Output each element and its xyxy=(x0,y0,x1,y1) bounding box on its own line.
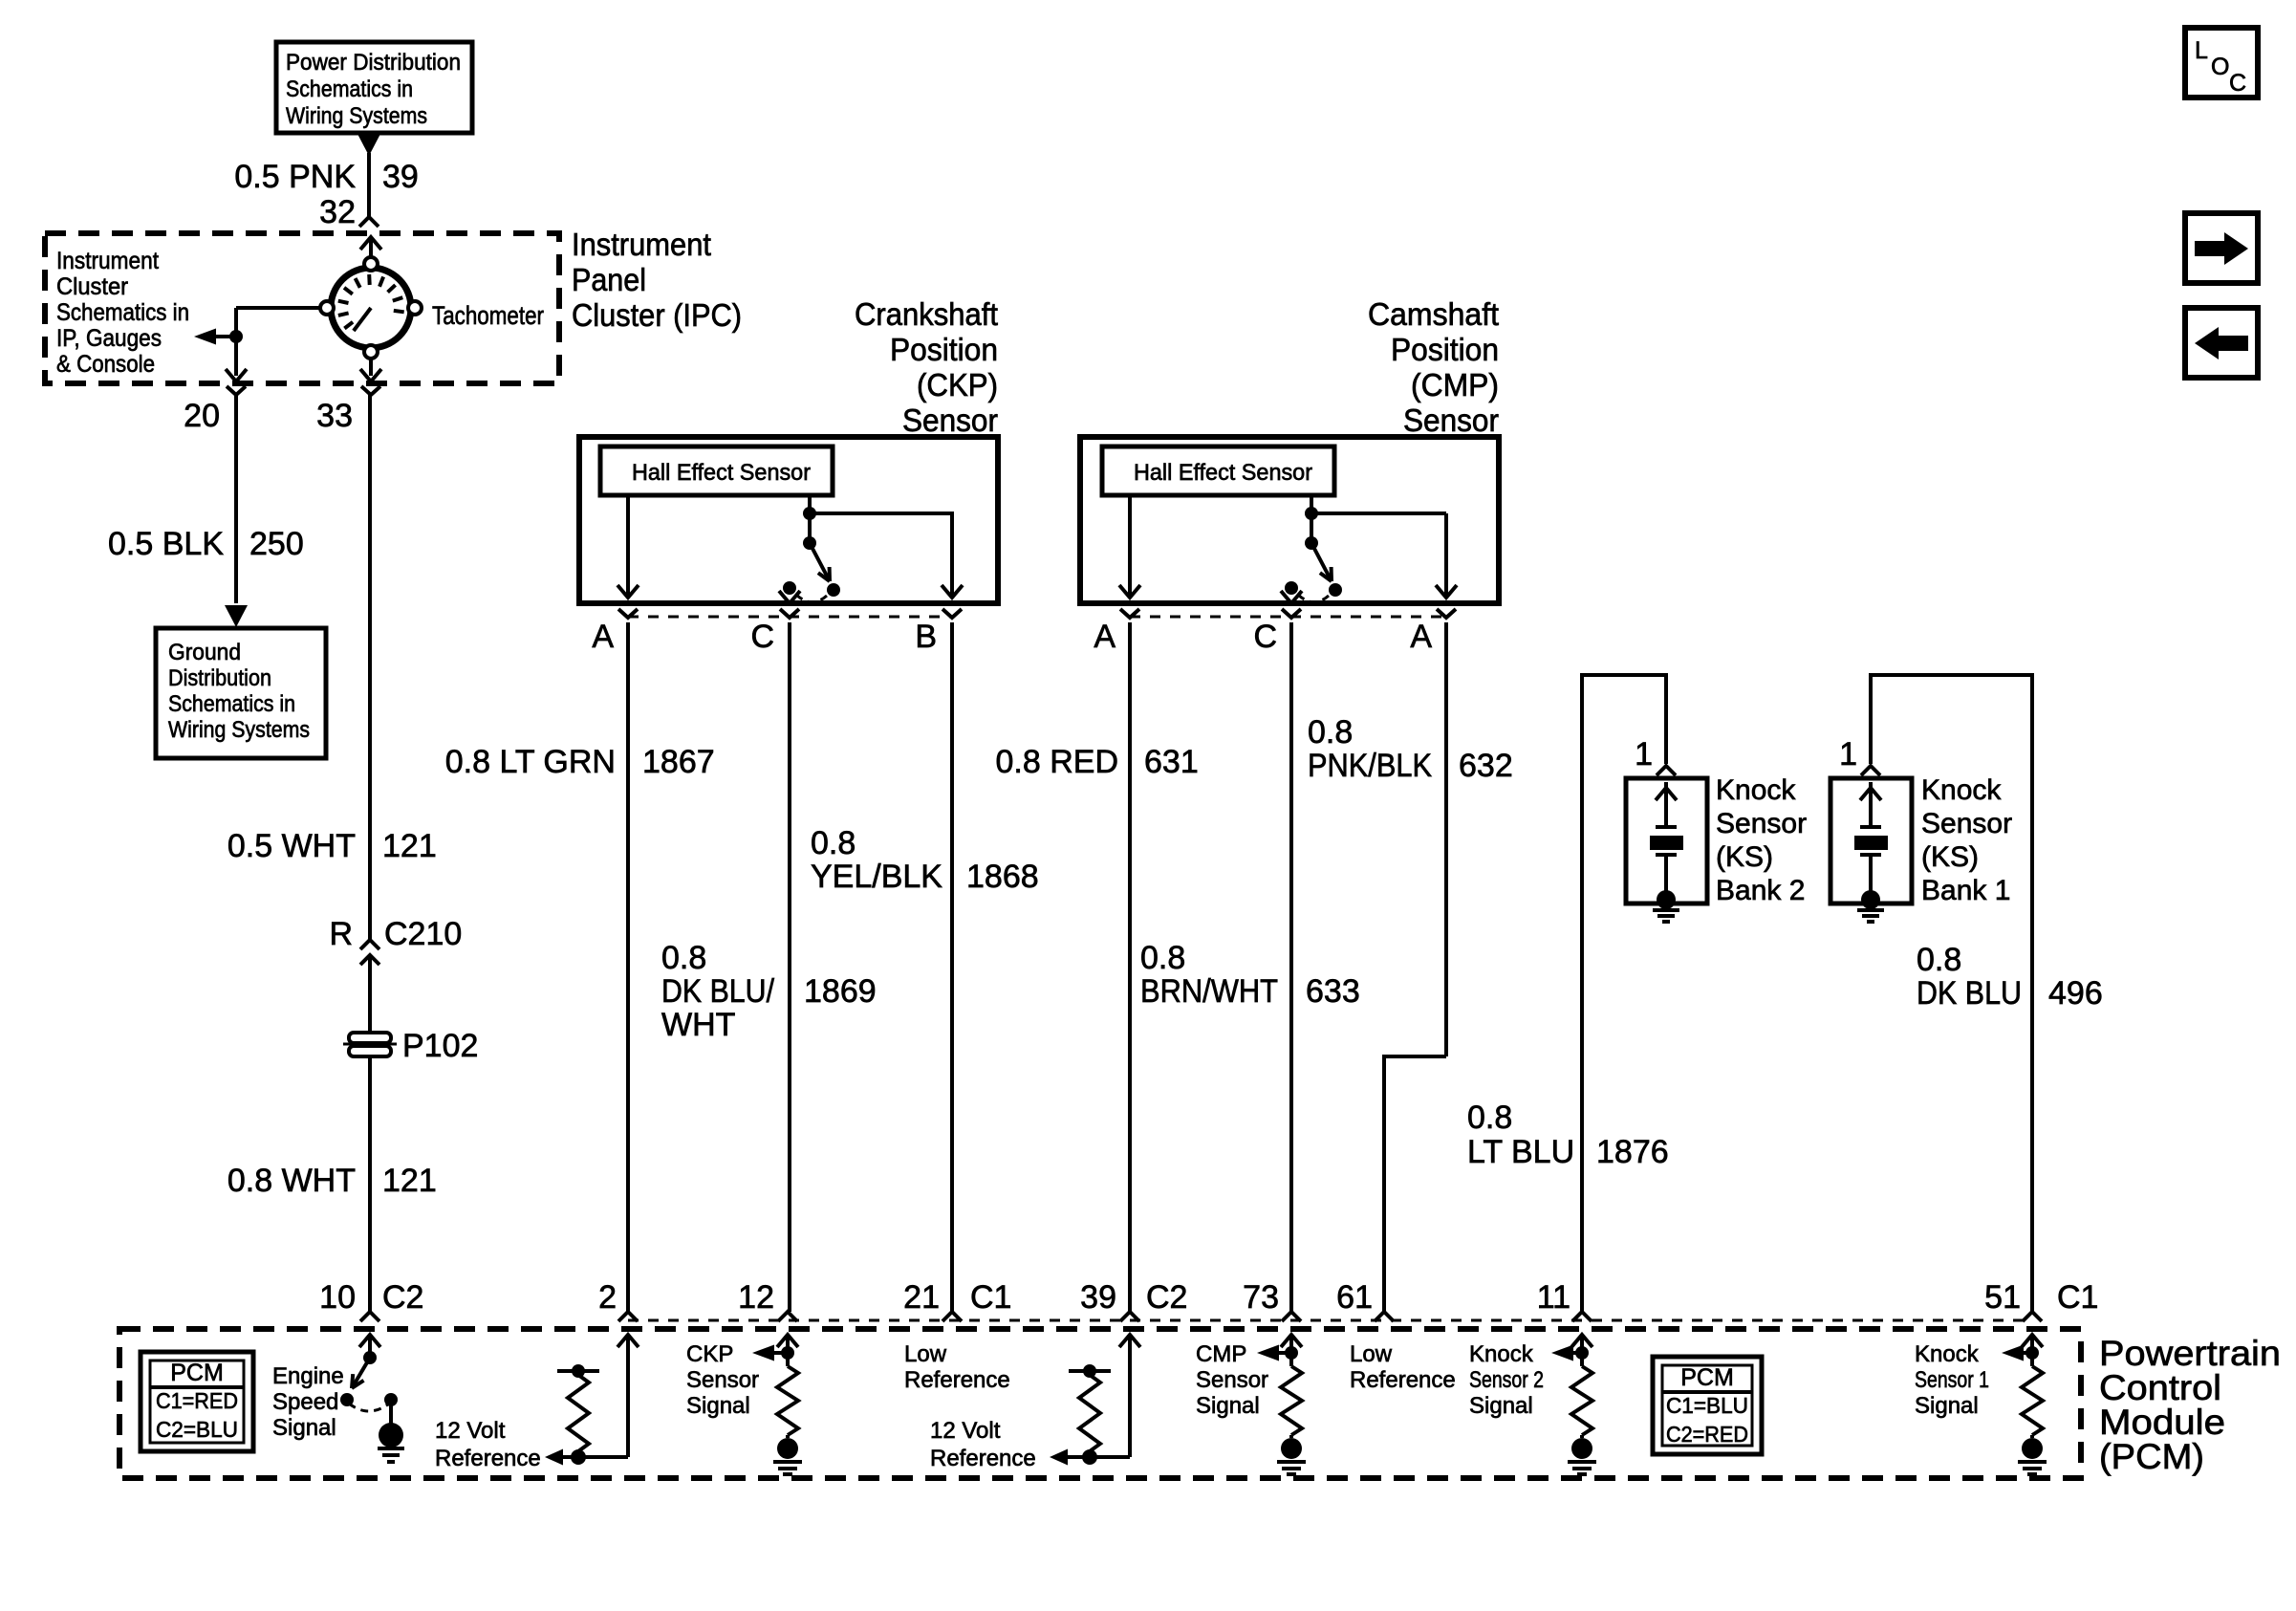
svg-text:Sensor: Sensor xyxy=(1921,808,2012,839)
svg-text:Bank 1: Bank 1 xyxy=(1921,875,2010,906)
CKP terminal B xyxy=(942,609,962,618)
PCM connector id box C1=BLU C2=RED xyxy=(1653,1357,1762,1454)
svg-text:121: 121 xyxy=(382,828,437,864)
svg-text:C: C xyxy=(2229,70,2246,97)
CMP internal junction xyxy=(1305,507,1318,520)
label 12 Volt Reference right xyxy=(930,1418,1036,1471)
svg-text:CKP: CKP xyxy=(686,1341,733,1367)
svg-text:(KS): (KS) xyxy=(1716,841,1773,873)
svg-text:(KS): (KS) xyxy=(1921,841,1979,873)
arrow into IPC bottom boundary wire 20 xyxy=(226,369,247,381)
svg-text:PCM: PCM xyxy=(1680,1364,1734,1391)
svg-text:Instrument: Instrument xyxy=(56,248,159,274)
arrow to IP Gauges schematics xyxy=(214,335,236,338)
svg-text:YEL/BLK: YEL/BLK xyxy=(811,859,942,895)
pin 11 of PCM xyxy=(1572,1312,1592,1321)
svg-text:Schematics in: Schematics in xyxy=(56,299,189,326)
12 volt reference circuit right xyxy=(1050,1335,1140,1466)
arrow into IPC bottom boundary wire 33 xyxy=(360,369,381,381)
label Knock Sensor 2 Signal xyxy=(1469,1341,1544,1419)
splice P102 xyxy=(343,1033,397,1056)
CKP hall effect sensor box xyxy=(600,446,833,495)
svg-text:1867: 1867 xyxy=(642,744,715,780)
PCM connector id box C1=RED C2=BLU xyxy=(141,1352,253,1451)
CKP terminal A xyxy=(618,609,638,618)
CKP internal wire to terminal A xyxy=(626,495,630,597)
svg-text:BRN/WHT: BRN/WHT xyxy=(1140,973,1278,1010)
label Knock Sensor (KS) Bank 2 xyxy=(1716,774,1807,906)
svg-text:O: O xyxy=(2211,54,2229,80)
svg-text:Position: Position xyxy=(1391,332,1499,367)
svg-text:Sensor: Sensor xyxy=(1716,808,1807,839)
CKP sensor title xyxy=(855,296,998,438)
CMP terminal A left xyxy=(1120,609,1139,618)
knock sensor KS bank 2 box xyxy=(1626,778,1707,922)
CMP internal wire from hall sensor to switch xyxy=(1310,495,1313,543)
knock sensor bank 2 terminal 1 xyxy=(1657,766,1676,775)
pin 39 C2 of PCM xyxy=(1120,1312,1139,1321)
svg-text:Sensor 2: Sensor 2 xyxy=(1469,1367,1544,1393)
connector C210 terminal R xyxy=(360,940,379,949)
ground symbol CKP signal xyxy=(777,1438,798,1459)
svg-text:Sensor: Sensor xyxy=(686,1367,759,1393)
Instrument Panel Cluster dashed outline xyxy=(45,233,559,383)
svg-text:0.5 BLK: 0.5 BLK xyxy=(108,526,224,562)
CMP sensor box xyxy=(1080,437,1499,603)
svg-text:0.5 PNK: 0.5 PNK xyxy=(234,159,356,195)
CMP switch contact to terminal C xyxy=(1285,581,1298,595)
svg-text:C: C xyxy=(750,619,774,655)
pin 21 C1 of PCM xyxy=(942,1312,962,1321)
svg-text:Knock: Knock xyxy=(1716,774,1796,806)
svg-text:Cluster: Cluster xyxy=(56,273,128,300)
svg-text:0.8 RED: 0.8 RED xyxy=(996,744,1119,780)
forward arrow navigation box xyxy=(2185,213,2258,283)
ground symbol knock sensor 2 signal xyxy=(1571,1438,1592,1459)
svg-text:1876: 1876 xyxy=(1596,1134,1669,1170)
svg-text:Low: Low xyxy=(1350,1341,1393,1367)
svg-text:Hall Effect Sensor: Hall Effect Sensor xyxy=(632,460,811,486)
svg-text:0.8 LT GRN: 0.8 LT GRN xyxy=(445,744,616,780)
Ground Distribution reference box xyxy=(156,628,326,758)
junction on left branch xyxy=(229,330,243,343)
svg-text:Knock: Knock xyxy=(1469,1341,1534,1367)
label CMP Sensor Signal xyxy=(1196,1341,1268,1419)
svg-text:39: 39 xyxy=(382,159,419,195)
svg-text:(CMP): (CMP) xyxy=(1411,367,1499,403)
svg-text:(CKP): (CKP) xyxy=(917,367,998,403)
back arrow navigation box xyxy=(2185,308,2258,378)
knock sensor bank 1 wire loop to PCM pin 51 xyxy=(1869,673,2034,1312)
svg-text:Instrument: Instrument xyxy=(572,227,711,262)
label 0.8 DK BLU 496 xyxy=(1917,942,2103,1012)
CMP terminal C xyxy=(1282,609,1301,618)
svg-text:C: C xyxy=(1253,619,1277,655)
ground symbol CMP signal xyxy=(1281,1438,1302,1459)
wire 1867 0.8 LT GRN CKP A to PCM pin 2 xyxy=(626,622,630,1312)
PCM title Powertrain Control Module (PCM) xyxy=(2099,1334,2281,1476)
CKP connector dashed line xyxy=(628,616,952,619)
CMP terminal A right xyxy=(1437,609,1456,618)
svg-text:P102: P102 xyxy=(402,1028,478,1064)
svg-text:0.8: 0.8 xyxy=(1308,714,1353,751)
svg-text:20: 20 xyxy=(184,398,220,434)
svg-text:Reference: Reference xyxy=(1350,1367,1456,1393)
svg-text:(PCM): (PCM) xyxy=(2099,1437,2204,1476)
CKP internal wire to terminal B xyxy=(810,512,954,515)
wire 39 0.5 PNK vertical segment xyxy=(367,153,371,217)
svg-text:Signal: Signal xyxy=(1469,1393,1533,1419)
CKP terminal C xyxy=(780,609,799,618)
svg-text:DK BLU: DK BLU xyxy=(1917,975,2022,1012)
knock sensor bank 2 wire loop to PCM pin 11 xyxy=(1580,673,1668,1312)
svg-text:Panel: Panel xyxy=(572,262,646,297)
svg-text:51: 51 xyxy=(1984,1279,2021,1316)
pin 61 of PCM xyxy=(1375,1312,1394,1321)
LOC reference symbol box xyxy=(2185,28,2258,98)
svg-text:A: A xyxy=(1094,619,1116,655)
svg-text:L: L xyxy=(2195,37,2208,64)
svg-text:Cluster (IPC): Cluster (IPC) xyxy=(572,297,742,333)
wire 1868 0.8 YEL/BLK CKP B to PCM pin 21 xyxy=(950,622,954,1312)
12 volt reference circuit left xyxy=(545,1335,639,1466)
Powertrain Control Module dashed outline xyxy=(119,1329,2081,1478)
solid arrow into Ground Distribution box xyxy=(225,605,248,627)
svg-text:Signal: Signal xyxy=(1915,1393,1979,1419)
svg-text:21: 21 xyxy=(903,1279,940,1316)
wire tachometer top lead inside IPC xyxy=(360,237,381,250)
label 0.8 DK BLU/WHT 1869 xyxy=(661,940,877,1043)
svg-text:10: 10 xyxy=(319,1279,356,1316)
svg-text:Sensor: Sensor xyxy=(1196,1367,1268,1393)
pin 12 of PCM xyxy=(778,1312,797,1321)
svg-text:Bank 2: Bank 2 xyxy=(1716,875,1805,906)
svg-text:Hall Effect Sensor: Hall Effect Sensor xyxy=(1134,460,1312,486)
label Knock Sensor 1 Signal xyxy=(1915,1341,1989,1419)
CMP hall effect sensor box xyxy=(1102,446,1334,495)
ground symbol knock sensor 1 signal xyxy=(2022,1438,2043,1459)
svg-text:Reference: Reference xyxy=(904,1367,1010,1393)
svg-text:Module: Module xyxy=(2099,1403,2225,1442)
svg-text:C2: C2 xyxy=(382,1279,423,1316)
terminal 20 below IPC xyxy=(227,386,246,395)
ground symbol engine speed signal xyxy=(378,1423,404,1462)
terminal 33 below IPC xyxy=(361,386,380,395)
label Knock Sensor (KS) Bank 1 xyxy=(1921,774,2012,906)
svg-text:Tachometer: Tachometer xyxy=(432,301,544,330)
CMP sensor signal circuit inside PCM xyxy=(1257,1335,1302,1438)
Power Distribution reference box xyxy=(276,42,472,133)
svg-text:LT BLU: LT BLU xyxy=(1467,1134,1574,1170)
svg-text:Sensor: Sensor xyxy=(1403,403,1499,438)
svg-text:Crankshaft: Crankshaft xyxy=(855,296,998,332)
svg-text:33: 33 xyxy=(316,398,353,434)
svg-text:& Console: & Console xyxy=(56,351,155,378)
svg-text:C210: C210 xyxy=(384,916,462,952)
CKP switch arm xyxy=(803,536,816,550)
label Low Reference pin 21 xyxy=(904,1341,1010,1393)
CKP switch contact to terminal C xyxy=(783,581,796,595)
svg-text:Wiring Systems: Wiring Systems xyxy=(286,103,427,129)
label CKP Sensor Signal xyxy=(686,1341,759,1419)
svg-text:0.8: 0.8 xyxy=(811,825,856,861)
CMP connector dashed line xyxy=(1130,616,1446,619)
IPC note text Instrument Cluster Schematics in IP, Gauges & Console xyxy=(56,248,189,378)
svg-text:A: A xyxy=(1410,619,1432,655)
svg-text:Reference: Reference xyxy=(930,1446,1036,1471)
label 0.8 LT BLU 1876 xyxy=(1467,1099,1669,1170)
svg-text:496: 496 xyxy=(2048,975,2103,1012)
svg-text:250: 250 xyxy=(249,526,304,562)
pin 51 C1 of PCM xyxy=(2023,1312,2042,1321)
svg-text:0.8 WHT: 0.8 WHT xyxy=(227,1163,356,1199)
svg-text:1: 1 xyxy=(1635,736,1653,773)
wire 33 0.5 WHT segment xyxy=(368,395,372,940)
svg-text:Wiring Systems: Wiring Systems xyxy=(168,717,310,743)
svg-text:Power Distribution: Power Distribution xyxy=(286,50,461,76)
svg-text:633: 633 xyxy=(1306,973,1360,1010)
CKP internal wire from hall sensor to switch xyxy=(808,495,812,543)
svg-text:A: A xyxy=(592,619,614,655)
svg-text:0.8: 0.8 xyxy=(1467,1099,1512,1136)
svg-text:C2=RED: C2=RED xyxy=(1666,1422,1748,1447)
svg-text:DK BLU/: DK BLU/ xyxy=(661,973,774,1010)
CMP switch travel arc xyxy=(1298,595,1329,602)
svg-text:Signal: Signal xyxy=(686,1393,750,1419)
pin 2 of PCM xyxy=(618,1312,638,1321)
label 0.8 PNK/BLK 632 xyxy=(1308,714,1513,784)
svg-text:C1: C1 xyxy=(970,1279,1011,1316)
wire tachometer bottom lead xyxy=(369,359,373,376)
svg-text:CMP: CMP xyxy=(1196,1341,1246,1367)
svg-text:C1=RED: C1=RED xyxy=(156,1388,238,1413)
svg-text:121: 121 xyxy=(382,1163,437,1199)
wire tachometer left branch xyxy=(236,306,319,310)
svg-text:Low: Low xyxy=(904,1341,947,1367)
wire 632 0.8 PNK/BLK CMP right A to PCM pin 61 with jog xyxy=(1384,622,1446,1312)
svg-text:631: 631 xyxy=(1144,744,1199,780)
svg-text:0.5 WHT: 0.5 WHT xyxy=(227,828,356,864)
wire 633 0.8 BRN/WHT CMP C to PCM pin 73 xyxy=(1289,622,1293,1312)
knock sensor 2 signal circuit inside PCM xyxy=(1551,1335,1592,1438)
tachometer gauge xyxy=(320,257,422,359)
svg-text:B: B xyxy=(915,619,937,655)
svg-text:0.8: 0.8 xyxy=(661,940,706,976)
svg-text:WHT: WHT xyxy=(661,1007,735,1043)
svg-text:Schematics in: Schematics in xyxy=(168,691,295,717)
svg-text:Reference: Reference xyxy=(435,1446,541,1471)
knock sensor 1 signal circuit inside PCM xyxy=(2002,1335,2043,1438)
svg-text:Signal: Signal xyxy=(272,1415,336,1441)
svg-text:Signal: Signal xyxy=(1196,1393,1260,1419)
svg-text:C1: C1 xyxy=(2057,1279,2098,1316)
svg-text:1869: 1869 xyxy=(804,973,877,1010)
label 0.8 YEL/BLK 1868 xyxy=(811,825,1039,895)
svg-text:11: 11 xyxy=(1537,1279,1570,1316)
svg-text:PCM: PCM xyxy=(170,1360,224,1386)
solid arrow from Power Distribution box xyxy=(357,134,380,156)
svg-text:73: 73 xyxy=(1243,1279,1279,1316)
CKP sensor box xyxy=(579,437,998,603)
wire 0.8 WHT 121 segment to PCM xyxy=(368,1056,372,1312)
svg-text:61: 61 xyxy=(1336,1279,1373,1316)
wire 121 between C210 and P102 xyxy=(368,955,372,1034)
svg-text:12 Volt: 12 Volt xyxy=(435,1418,506,1444)
pin 73 of PCM xyxy=(1282,1312,1301,1321)
svg-text:R: R xyxy=(329,916,353,952)
svg-text:39: 39 xyxy=(1080,1279,1116,1316)
wire 631 0.8 RED CMP A to PCM pin 39 xyxy=(1128,622,1132,1312)
CMP internal wire to terminal A xyxy=(1128,495,1132,597)
svg-text:IP, Gauges: IP, Gauges xyxy=(56,325,162,352)
wire 1869 0.8 DK BLU/WHT CKP C to PCM pin 12 xyxy=(788,622,791,1312)
svg-text:0.8: 0.8 xyxy=(1140,940,1185,976)
wire 20 0.5 BLK segment xyxy=(234,395,238,603)
label Engine Speed Signal xyxy=(272,1363,344,1441)
engine speed signal switch inside PCM xyxy=(340,1335,398,1425)
svg-text:Sensor 1: Sensor 1 xyxy=(1915,1367,1989,1393)
CKP switch travel arc xyxy=(796,595,827,602)
svg-text:Camshaft: Camshaft xyxy=(1368,296,1499,332)
svg-text:2: 2 xyxy=(598,1279,617,1316)
svg-text:Knock: Knock xyxy=(1921,774,2002,806)
svg-text:1868: 1868 xyxy=(966,859,1039,895)
svg-text:Schematics in: Schematics in xyxy=(286,76,413,102)
connector terminal 32 at IPC boundary xyxy=(359,217,379,227)
pin 10 C2 of PCM xyxy=(360,1312,379,1321)
svg-text:12: 12 xyxy=(738,1279,774,1316)
knock sensor KS bank 1 box xyxy=(1830,778,1912,922)
svg-text:C1=BLU: C1=BLU xyxy=(1666,1393,1748,1418)
svg-text:Sensor: Sensor xyxy=(902,403,998,438)
svg-text:Engine: Engine xyxy=(272,1363,344,1389)
CKP internal junction xyxy=(803,507,816,520)
svg-text:632: 632 xyxy=(1459,748,1513,784)
svg-text:C2=BLU: C2=BLU xyxy=(156,1417,238,1442)
svg-text:1: 1 xyxy=(1839,736,1857,773)
label Low Reference pin 61 xyxy=(1350,1341,1456,1393)
svg-text:Position: Position xyxy=(890,332,998,367)
svg-text:PNK/BLK: PNK/BLK xyxy=(1308,748,1432,784)
CMP switch arm xyxy=(1305,536,1318,550)
svg-text:C2: C2 xyxy=(1146,1279,1187,1316)
label 12 Volt Reference left xyxy=(435,1418,541,1471)
svg-text:0.8: 0.8 xyxy=(1917,942,1961,978)
svg-text:Knock: Knock xyxy=(1915,1341,1980,1367)
svg-text:Distribution: Distribution xyxy=(168,665,271,691)
label 0.8 BRN/WHT 633 xyxy=(1140,940,1360,1010)
IPC title Instrument Panel Cluster (IPC) xyxy=(572,227,742,333)
svg-text:12 Volt: 12 Volt xyxy=(930,1418,1001,1444)
PCM connector dashed line xyxy=(628,1319,2032,1322)
knock sensor bank 1 terminal 1 xyxy=(1861,766,1880,775)
CMP internal wire to right terminal A xyxy=(1311,512,1446,515)
svg-text:32: 32 xyxy=(319,194,356,230)
svg-text:Speed: Speed xyxy=(272,1389,338,1415)
CMP sensor title xyxy=(1368,296,1499,438)
svg-text:Powertrain: Powertrain xyxy=(2099,1334,2281,1373)
svg-text:Control: Control xyxy=(2099,1368,2221,1407)
svg-text:Ground: Ground xyxy=(168,640,241,665)
CKP sensor signal circuit inside PCM xyxy=(752,1335,798,1438)
